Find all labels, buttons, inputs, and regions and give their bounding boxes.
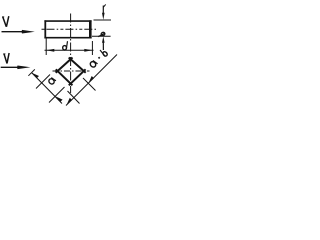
dimension d line [45,49,94,51]
section horizontal centerline [53,70,90,72]
square section edge upper-right [69,58,86,73]
plate rectangle left edge [44,20,46,38]
horizontal centerline [42,28,97,30]
dimension d right arrowhead [84,49,92,52]
dimension d extension line left [45,39,47,56]
label a [48,77,56,85]
dimension d left arrowhead [46,49,54,52]
dimension b extension line top [94,19,112,21]
vertical centerline [70,14,72,94]
label b [98,32,105,37]
dimension b upper arrow [102,4,106,19]
dimension d extension line right [91,41,93,55]
plate rectangle right edge [89,20,92,38]
dimension a·b extension line upper [83,78,96,91]
plate rectangle bottom edge [44,37,91,39]
dimension a·b arrowhead middle [88,76,94,83]
dimension a arrowhead outer [32,73,39,79]
dimension a·b extension line lower [68,91,80,104]
plate rectangle top edge [44,20,91,22]
square section edge upper-left [56,58,73,73]
flow arrow V2 [1,66,31,70]
flow arrow V1 [2,30,35,34]
dimension a line [32,73,63,104]
dimension a·b line [66,55,117,106]
dimension a arrowhead inner [55,96,62,102]
label V2 [3,53,9,64]
dimension a extension from left vertex [36,75,50,89]
label V1 [2,16,9,27]
dimension b lower arrow [102,37,105,51]
dimension b extension line bottom [92,35,111,37]
square section edge lower-left [56,69,73,85]
label d [63,41,68,50]
dimension a tick at outer tip [28,69,34,75]
square section edge lower-right [69,69,86,85]
label a·b [87,48,108,68]
dimension a extension from bottom vertex [49,87,65,103]
dimension a·b arrowhead lower [67,98,73,105]
